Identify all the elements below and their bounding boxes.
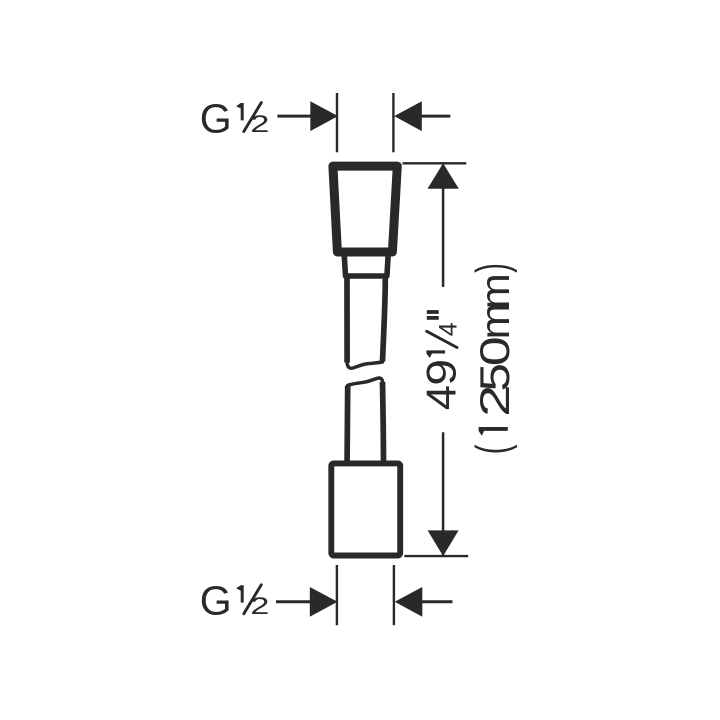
svg-text:9: 9	[418, 359, 465, 386]
svg-text:m: m	[472, 273, 518, 309]
svg-text:4: 4	[434, 322, 462, 336]
leader line bottom-right	[422, 600, 453, 603]
hose upper right wall	[383, 278, 386, 362]
vertical dimension line lower segment	[442, 432, 445, 555]
svg-text:0: 0	[471, 336, 518, 366]
extension line top-right	[392, 93, 394, 152]
arrow bottom-right	[395, 587, 423, 617]
hose connector bottom (cylindrical)	[331, 463, 400, 555]
svg-text:G: G	[200, 95, 232, 141]
hose connector nut top (conical)	[333, 166, 397, 252]
svg-text:): )	[467, 263, 518, 273]
leader line top-left	[277, 115, 311, 118]
hose lower left wall	[344, 386, 350, 461]
arrow top-right	[394, 101, 422, 131]
arrow right dimension down	[428, 530, 459, 556]
arrow top-left	[310, 101, 338, 131]
leader line top-right	[422, 115, 451, 118]
length label (1250 mm) (rotated)	[467, 263, 518, 454]
svg-text:G: G	[200, 578, 232, 624]
arrow bottom-left	[310, 587, 338, 617]
extension line bottom-left	[336, 565, 338, 625]
arrow right dimension up	[428, 163, 459, 189]
vertical dimension line upper segment	[442, 165, 445, 287]
hose upper left wall	[344, 278, 350, 363]
svg-text:4: 4	[418, 385, 465, 410]
extension line top-left	[336, 93, 338, 152]
extension line right-bottom (horizontal)	[404, 555, 468, 557]
leader line bottom-left	[276, 600, 311, 603]
extension line right-top (horizontal)	[403, 162, 467, 164]
bottom thread size G1/2	[200, 578, 270, 624]
svg-text:(: (	[467, 445, 518, 455]
svg-text:2: 2	[250, 593, 269, 620]
hose nut neck collar	[344, 255, 388, 277]
hose lower break wavy edge	[348, 378, 383, 385]
hose lower right wall	[383, 382, 384, 461]
length label 49 1/4 inch (rotated)	[418, 312, 465, 410]
label: top thread size G1/2	[200, 95, 270, 141]
hose upper break wavy edge	[347, 362, 382, 368]
svg-text:2: 2	[250, 111, 269, 138]
extension line bottom-right	[393, 565, 395, 625]
